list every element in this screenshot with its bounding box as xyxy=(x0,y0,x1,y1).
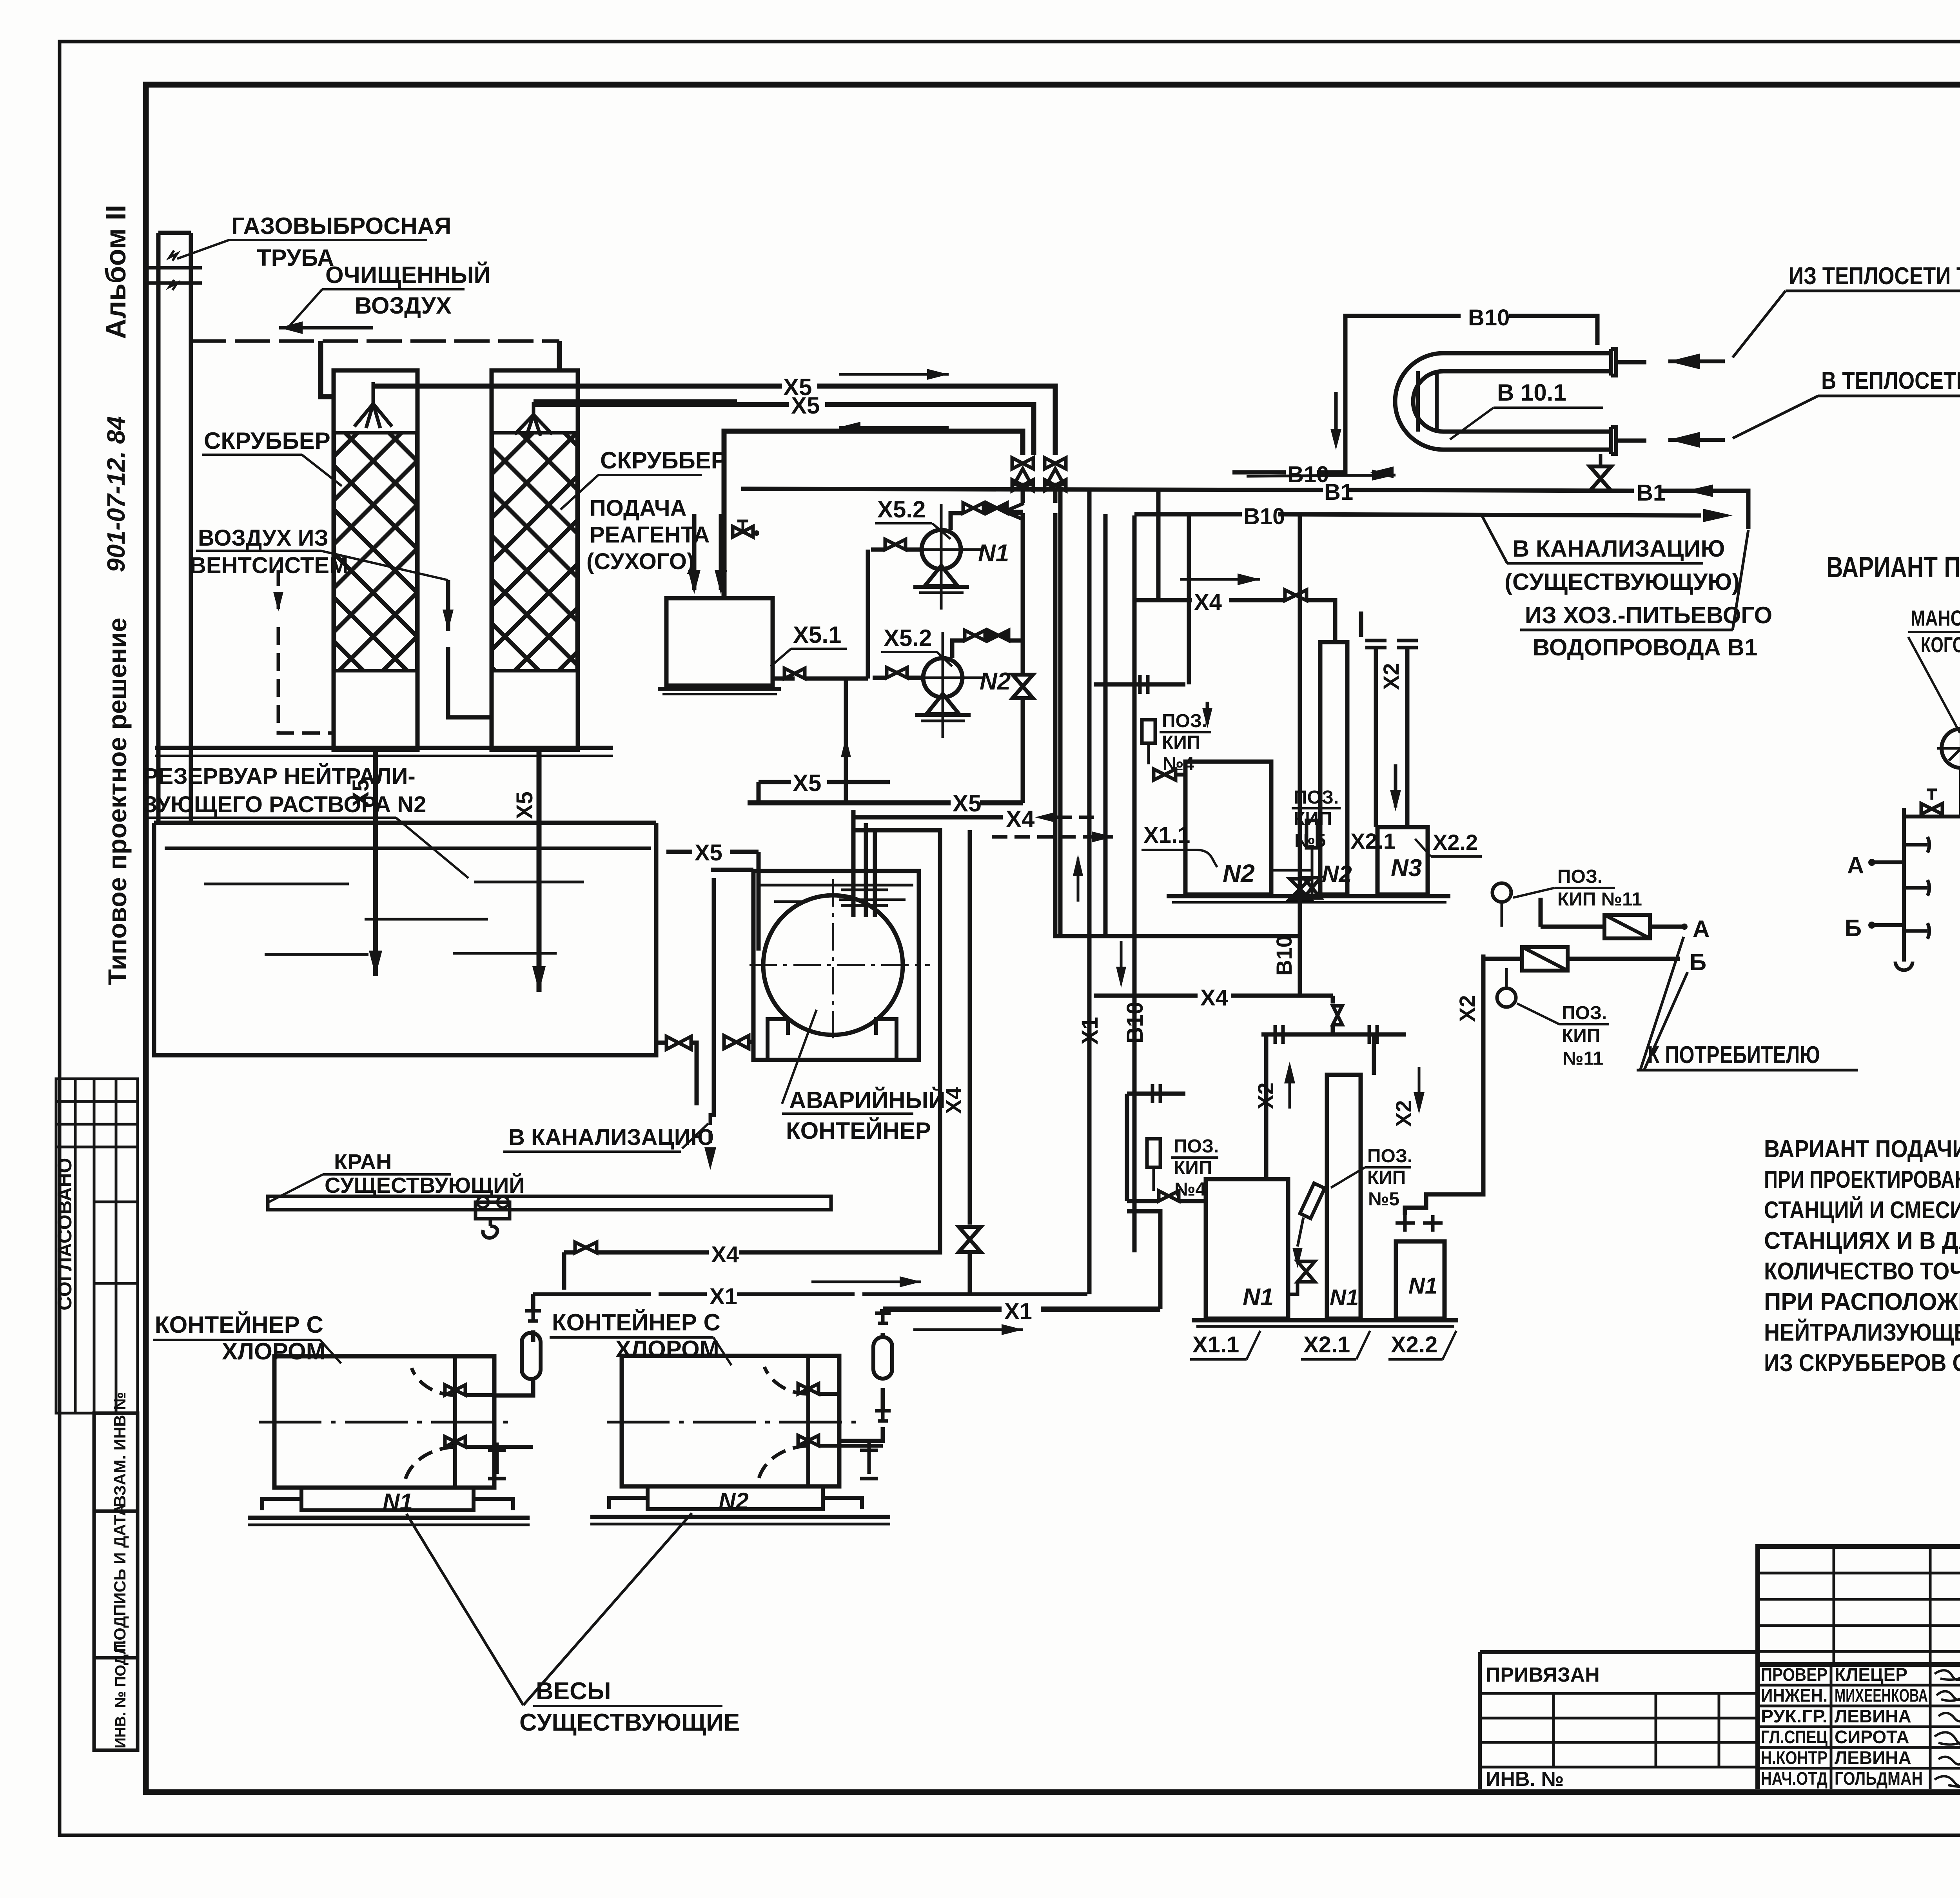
svg-text:К ПОТРЕБИТЕЛЮ: К ПОТРЕБИТЕЛЮ xyxy=(1648,1042,1820,1069)
valve under right bottom end xyxy=(1599,454,1602,466)
scale platform 1 xyxy=(301,1488,474,1510)
label xyxy=(786,1087,945,1144)
svg-text:ПОЗ.: ПОЗ. xyxy=(1557,866,1602,887)
svg-text:Х1: Х1 xyxy=(1077,1017,1103,1045)
top pipe from chimney to scrubber1 (dashed style) xyxy=(191,339,559,343)
stubs xyxy=(1616,360,1646,365)
tank N3 xyxy=(1377,827,1428,895)
X4 horizontal y=3195 xyxy=(564,1250,575,1255)
svg-text:ПРИ РАСПОЛОЖЕНИИ СКРУББЕРОВ В: ПРИ РАСПОЛОЖЕНИИ СКРУББЕРОВ В ЗДАНИИ РЕЗ… xyxy=(1764,1288,1960,1316)
svg-text:ПОЗ.: ПОЗ. xyxy=(1162,711,1207,731)
svg-text:Б: Б xyxy=(1845,915,1862,941)
v kanalizaciyu label xyxy=(508,1125,714,1150)
valve cluster 2x2 xyxy=(1012,458,1066,491)
svg-text:N2: N2 xyxy=(980,668,1011,695)
ground line under low tanks xyxy=(1192,1318,1458,1323)
svg-text:КИП: КИП xyxy=(1562,1025,1600,1046)
mixer A (upper) xyxy=(1541,925,1604,929)
names rows xyxy=(1758,1685,1960,1768)
end caps xyxy=(1611,349,1616,454)
svg-text:Х5.2: Х5.2 xyxy=(884,625,932,651)
arrow left on pipe xyxy=(279,326,373,330)
svg-text:ПРИ ПРОЕКТИРОВАНИИ ПРОИЗВОДСТВ: ПРИ ПРОЕКТИРОВАНИИ ПРОИЗВОДСТВЕННЫХ ЗДАН… xyxy=(1764,1166,1960,1193)
svg-text:ИНЖЕН.: ИНЖЕН. xyxy=(1761,1685,1828,1706)
N2 discharge xyxy=(952,641,965,658)
svg-text:ХЛОРОМ: ХЛОРОМ xyxy=(615,1336,719,1362)
tank X5.1 xyxy=(666,598,773,686)
KIP N11 lower circle xyxy=(1497,988,1516,1007)
signatures squiggles xyxy=(1935,1670,1960,1787)
emergency container box xyxy=(753,871,919,1060)
B10 vertical with X-valve xyxy=(1298,515,1302,996)
svg-text:Х5: Х5 xyxy=(791,392,820,419)
vertical bundle xyxy=(1058,490,1063,936)
N2 suction valve xyxy=(887,668,907,678)
svg-text:N1: N1 xyxy=(1408,1273,1437,1299)
svg-text:ВОЗДУХ ИЗ: ВОЗДУХ ИЗ xyxy=(198,525,328,551)
svg-text:КРАН: КРАН xyxy=(334,1149,392,1174)
X1 thin horizontal y=3302 xyxy=(533,1292,1089,1296)
svg-text:КИП №11: КИП №11 xyxy=(1557,889,1642,910)
upper instrument circuit KIP N4 xyxy=(1094,682,1185,687)
svg-text:N3: N3 xyxy=(1391,855,1422,882)
svg-text:НЕЙТРАЛИЗУЮЩЕГО РАСТВОРА N2 ОТ: НЕЙТРАЛИЗУЮЩЕГО РАСТВОРА N2 ОТСУТСТВУЕТ.… xyxy=(1764,1319,1960,1346)
svg-text:Типовое проектное решение: Типовое проектное решение xyxy=(103,618,132,985)
tank body xyxy=(154,823,656,1055)
svg-text:Х2: Х2 xyxy=(1391,1100,1416,1127)
scrubber 2 xyxy=(492,370,578,750)
svg-text:ГЛ.СПЕЦ: ГЛ.СПЕЦ xyxy=(1761,1727,1828,1747)
scrubber 1 xyxy=(334,370,417,750)
container 2 label xyxy=(552,1309,720,1362)
V kanalizaciyu block right of B10 arrow xyxy=(1504,535,1772,660)
svg-text:ИЗ СКРУББЕРОВ ОСУЩЕСТВЛЯЕТСЯ В: ИЗ СКРУББЕРОВ ОСУЩЕСТВЛЯЕТСЯ В РЕЗЕРВУАР… xyxy=(1764,1350,1960,1377)
svg-text:СОГЛАСОВАНО: СОГЛАСОВАНО xyxy=(54,1158,76,1310)
svg-text:В1: В1 xyxy=(1637,480,1666,506)
drop to X5 collect line xyxy=(844,679,848,803)
svg-text:ОЧИЩЕННЫЙ: ОЧИЩЕННЫЙ xyxy=(325,262,491,288)
svg-text:Х4: Х4 xyxy=(941,1087,966,1114)
manifold xyxy=(1902,808,1906,962)
svg-text:КИП: КИП xyxy=(1174,1158,1212,1178)
privyazan table xyxy=(1480,1652,1758,1789)
kran sushchestvuyushchiy (crane rail) xyxy=(325,1149,525,1198)
svg-text:ИНВ. №: ИНВ. № xyxy=(1486,1768,1564,1791)
thick X1 line y=3340 from container2 xyxy=(883,1306,1160,1312)
A and B stubs xyxy=(1868,859,1875,866)
svg-text:ГАЗОВЫБРОСНАЯ: ГАЗОВЫБРОСНАЯ xyxy=(231,213,451,239)
svg-text:N2: N2 xyxy=(1223,859,1255,887)
X4 line y=1531 xyxy=(1134,598,1285,602)
svg-text:А: А xyxy=(1693,916,1710,942)
svg-text:ВАРИАНТ ПОДАЧИ ХЛОРА В ТОЧКЕ В: ВАРИАНТ ПОДАЧИ ХЛОРА В ТОЧКЕ ВВОДА ПРЕДУ… xyxy=(1764,1136,1960,1163)
svg-text:N2: N2 xyxy=(719,1488,749,1514)
svg-text:А: А xyxy=(1847,852,1864,878)
svg-text:(СУХОГО): (СУХОГО) xyxy=(586,549,694,574)
svg-text:ПОЗ.: ПОЗ. xyxy=(1174,1136,1219,1157)
svg-text:Х5.1: Х5.1 xyxy=(793,622,841,648)
svg-text:КОНТЕЙНЕР С: КОНТЕЙНЕР С xyxy=(155,1312,323,1338)
svg-text:ИЗ ТЕПЛОСЕТИ ТО: ИЗ ТЕПЛОСЕТИ ТО xyxy=(1789,263,1960,290)
svg-text:Н.КОНТР: Н.КОНТР xyxy=(1761,1747,1828,1768)
dip tubes from top xyxy=(757,852,761,951)
svg-text:N1: N1 xyxy=(1330,1285,1359,1310)
KIP N5 lower slanted instrument xyxy=(1367,1146,1412,1210)
svg-text:СИРОТА: СИРОТА xyxy=(1835,1727,1909,1747)
ground line under mid tanks xyxy=(1167,894,1450,898)
soglasovano table xyxy=(56,1079,138,1413)
svg-text:Х1: Х1 xyxy=(1004,1299,1032,1324)
line 3 loop to tank X5.1 xyxy=(724,431,1023,598)
svg-text:N1: N1 xyxy=(383,1489,413,1515)
svg-text:ПОДАЧА: ПОДАЧА xyxy=(590,495,686,521)
KIP N11 upper circle xyxy=(1492,883,1511,902)
svg-text:В10: В10 xyxy=(1243,504,1285,529)
X4 line y=2540 xyxy=(1094,994,1333,998)
svg-text:№11: №11 xyxy=(1563,1048,1603,1069)
second elbow to X2 columns xyxy=(1359,611,1363,637)
manometr label xyxy=(1911,606,1960,657)
svg-text:СУЩЕСТВУЮЩИЙ: СУЩЕСТВУЮЩИЙ xyxy=(325,1173,525,1198)
svg-text:ПОЗ.: ПОЗ. xyxy=(1367,1146,1412,1167)
svg-text:КОНТЕЙНЕР С: КОНТЕЙНЕР С xyxy=(552,1309,720,1335)
container 1 label xyxy=(155,1312,326,1365)
small grid left xyxy=(1758,1546,1960,1664)
vesy label with V leader xyxy=(519,1678,740,1736)
U heat exchanger outer xyxy=(1395,353,1611,450)
svg-text:СУЩЕСТВУЮЩИЕ: СУЩЕСТВУЮЩИЕ xyxy=(519,1709,740,1736)
svg-text:СТАНЦИЙ И СМЕСИТЕЛЕЙ ВОДЫ С ХЛ: СТАНЦИЙ И СМЕСИТЕЛЕЙ ВОДЫ С ХЛОРОМ НА КА… xyxy=(1764,1196,1960,1224)
ochishchenny vozduh label xyxy=(325,262,491,319)
svg-text:Х4: Х4 xyxy=(1200,985,1228,1011)
svg-text:Х2: Х2 xyxy=(1455,995,1479,1022)
svg-text:ПОДПИСЬ И ДАТА: ПОДПИСЬ И ДАТА xyxy=(111,1504,129,1652)
spray nozzle 1 xyxy=(354,382,392,428)
svg-text:В10: В10 xyxy=(1122,1002,1148,1043)
chimney gazovybrosnaya truba xyxy=(156,233,161,823)
short ticks on dip tubes xyxy=(841,904,888,907)
svg-text:Х2.1: Х2.1 xyxy=(1303,1332,1350,1357)
svg-text:ИНВ. № ПОДЛ.: ИНВ. № ПОДЛ. xyxy=(113,1640,129,1748)
svg-text:ВЕНТСИСТЕМ: ВЕНТСИСТЕМ xyxy=(190,553,348,578)
container 1 xyxy=(274,1356,494,1488)
X5 line 1 (top, feeds scrubber1) xyxy=(373,386,1055,455)
svg-text:НАЧ.ОТД: НАЧ.ОТД xyxy=(1761,1768,1828,1789)
pump N1 xyxy=(922,530,961,569)
svg-text:КИП: КИП xyxy=(1162,732,1200,753)
svg-text:(СУЩЕСТВУЮЩУЮ): (СУЩЕСТВУЮЩУЮ) xyxy=(1504,569,1740,595)
svg-text:РУК.ГР.: РУК.ГР. xyxy=(1761,1706,1828,1726)
B1 long line y~1250 xyxy=(741,489,1748,529)
svg-text:РЕАГЕНТА: РЕАГЕНТА xyxy=(590,522,710,548)
X5 collect line xyxy=(759,780,890,784)
X2 line to mixers xyxy=(1483,957,1522,961)
svg-text:КОЛИЧЕСТВО ТОЧЕК ВВОДА ОПРЕДЕЛ: КОЛИЧЕСТВО ТОЧЕК ВВОДА ОПРЕДЕЛЯЕТСЯ ПРИ … xyxy=(1764,1258,1960,1285)
svg-text:N2: N2 xyxy=(1322,861,1352,887)
tank N1 big xyxy=(1206,1179,1288,1319)
svg-text:ПРОВЕР: ПРОВЕР xyxy=(1761,1664,1828,1685)
small up arrows on bundle xyxy=(1077,858,1080,902)
container2 feed pipe xyxy=(880,1309,886,1313)
svg-text:Х5.2: Х5.2 xyxy=(877,496,926,523)
svg-text:Х5: Х5 xyxy=(512,791,537,819)
svg-text:ВЕСЫ: ВЕСЫ xyxy=(536,1678,611,1705)
container 2 xyxy=(622,1356,839,1486)
svg-text:АВАРИЙНЫЙ: АВАРИЙНЫЙ xyxy=(789,1087,945,1113)
svg-text:ХЛОРОМ: ХЛОРОМ xyxy=(222,1338,326,1365)
svg-text:СТАНЦИЯХ И В ДАННОМ ПРОЕКТЕ НЕ: СТАНЦИЯХ И В ДАННОМ ПРОЕКТЕ НЕ РАЗРАБАТЫ… xyxy=(1764,1227,1960,1254)
crane trolley and hook xyxy=(475,1202,510,1219)
svg-text:В 10.1: В 10.1 xyxy=(1497,379,1566,406)
svg-text:Х2: Х2 xyxy=(1253,1083,1278,1110)
svg-text:РЕЗЕРВУАР НЕЙТРАЛИ-: РЕЗЕРВУАР НЕЙТРАЛИ- xyxy=(143,764,416,789)
svg-text:КОНТЕЙНЕР: КОНТЕЙНЕР xyxy=(786,1118,931,1144)
label gazovybrosnaya xyxy=(231,213,451,271)
X5 drop arrows to tank xyxy=(373,750,378,976)
B10 long line y~1312 xyxy=(1134,514,1701,515)
water line in box xyxy=(760,884,913,887)
water level xyxy=(165,847,651,850)
svg-text:ПОЗ.: ПОЗ. xyxy=(1562,1003,1607,1023)
vertical from valve cluster down with X-valve xyxy=(1021,513,1025,675)
svg-text:Х4: Х4 xyxy=(1006,806,1035,832)
tank N2 big xyxy=(1185,762,1271,895)
margin boxes column xyxy=(94,1413,138,1750)
svg-text:КИП: КИП xyxy=(1367,1167,1406,1188)
svg-text:Х4: Х4 xyxy=(711,1242,739,1267)
container1 feed pipe down xyxy=(531,1294,535,1311)
suction manifold vertical xyxy=(866,550,870,679)
mixer B (lower) xyxy=(1522,947,1568,971)
svg-text:В КАНАЛИЗАЦИЮ: В КАНАЛИЗАЦИЮ xyxy=(1512,535,1725,562)
svg-text:Х1.1: Х1.1 xyxy=(1143,822,1190,848)
svg-text:Х5: Х5 xyxy=(953,790,981,817)
svg-text:N1: N1 xyxy=(978,540,1009,567)
svg-text:ГОЛЬДМАН: ГОЛЬДМАН xyxy=(1835,1768,1923,1789)
KIP N4 lower xyxy=(1174,1136,1219,1200)
pump N2 xyxy=(923,658,962,697)
svg-text:Х4: Х4 xyxy=(1194,590,1222,615)
B10 upper link to U-loop xyxy=(1232,316,1597,472)
thin tank N2 xyxy=(1320,642,1347,895)
svg-text:В10: В10 xyxy=(1468,305,1510,330)
svg-text:Х2: Х2 xyxy=(1379,663,1403,690)
air inlet arrows between scrubbers xyxy=(446,580,450,631)
svg-text:ВОДОПРОВОДА В1: ВОДОПРОВОДА В1 xyxy=(1533,634,1757,660)
cradle xyxy=(768,1019,788,1060)
svg-text:В ТЕПЛОСЕТЬ ТО: В ТЕПЛОСЕТЬ ТО xyxy=(1821,367,1960,394)
svg-text:В10: В10 xyxy=(1272,935,1296,976)
big arrows from teploset xyxy=(1668,359,1725,363)
inflow arrows xyxy=(692,514,697,590)
open arrow left of cluster xyxy=(1003,510,1023,514)
svg-text:Б: Б xyxy=(1690,949,1706,975)
tube ticks xyxy=(1416,371,1420,432)
KIP N5 instrument upper xyxy=(1294,787,1339,851)
svg-text:Х2.1: Х2.1 xyxy=(1350,829,1396,853)
columns down to N1 tanks xyxy=(1264,1034,1269,1179)
svg-text:СКРУББЕР: СКРУББЕР xyxy=(204,428,330,454)
svg-text:ЗУЮЩЕГО РАСТВОРА N2: ЗУЮЩЕГО РАСТВОРА N2 xyxy=(143,792,426,817)
svg-text:901-07-12. 84: 901-07-12. 84 xyxy=(102,416,130,572)
reservoir N2 label xyxy=(143,764,426,817)
X5 line 2 (feeds scrubber2) xyxy=(534,405,1034,455)
svg-text:В10: В10 xyxy=(1287,462,1329,487)
gauge circle xyxy=(1942,729,1960,768)
svg-text:Х1.1: Х1.1 xyxy=(1192,1332,1239,1357)
svg-text:СКРУББЕР: СКРУББЕР xyxy=(600,447,727,474)
labels below xyxy=(1192,1332,1437,1357)
svg-text:Х5: Х5 xyxy=(695,840,722,866)
scale platform 2 xyxy=(648,1486,823,1509)
main stamp outline xyxy=(1758,1546,1960,1664)
valve on vertical into tank xyxy=(733,526,753,537)
manifold to rotameter bottom pipe xyxy=(1904,815,1960,818)
svg-text:ТРУБА: ТРУБА xyxy=(257,245,334,271)
X4 vertical from container circle area down through valve to X1 xyxy=(968,830,972,1225)
svg-text:№5: №5 xyxy=(1368,1189,1399,1210)
X4 stub line with arrow xyxy=(852,815,1003,820)
svg-text:Х1: Х1 xyxy=(710,1284,737,1309)
svg-text:ЛЕВИНА: ЛЕВИНА xyxy=(1835,1747,1911,1768)
vozduh iz ventsistem xyxy=(190,525,348,578)
hash line xyxy=(1261,1032,1406,1037)
centerlines xyxy=(750,964,930,966)
container circle xyxy=(763,895,903,1035)
scrubber labels xyxy=(204,428,727,574)
svg-text:ВЗАМ. ИНВ №: ВЗАМ. ИНВ № xyxy=(111,1392,129,1507)
tank outlet to manifold xyxy=(773,677,795,681)
svg-text:МАНОМЕТР НИЗ-: МАНОМЕТР НИЗ- xyxy=(1911,606,1960,630)
svg-text:МИХЕЕНКОВА: МИХЕЕНКОВА xyxy=(1835,1685,1928,1706)
thin tank N1 xyxy=(1327,1075,1361,1319)
svg-text:Альбом II: Альбом II xyxy=(100,205,132,339)
N1 discharge up and valves xyxy=(951,513,963,530)
N1 suction valve xyxy=(885,539,906,550)
floor line under scrubbers xyxy=(155,746,613,750)
svg-text:N1: N1 xyxy=(1243,1284,1274,1311)
svg-text:ПРИВЯЗАН: ПРИВЯЗАН xyxy=(1486,1664,1600,1686)
bottom right drain valves xyxy=(666,1036,691,1049)
svg-text:Х5: Х5 xyxy=(793,770,821,796)
svg-text:ЛЕВИНА: ЛЕВИНА xyxy=(1835,1706,1911,1726)
svg-text:Х2.2: Х2.2 xyxy=(1391,1332,1437,1357)
flow arrow on X4 line xyxy=(1180,578,1260,581)
small tank N1 right xyxy=(1396,1241,1445,1319)
svg-text:КЛЕЦЕР: КЛЕЦЕР xyxy=(1835,1664,1907,1685)
svg-text:ВАРИАНТ ПОДАЧИ ХЛОРА В ТОЧКЕ В: ВАРИАНТ ПОДАЧИ ХЛОРА В ТОЧКЕ ВВОДА xyxy=(1826,551,1960,583)
counterweight brackets xyxy=(488,1443,506,1479)
svg-text:КОГО ДАВЛЕНИЯ: КОГО ДАВЛЕНИЯ xyxy=(1921,632,1960,657)
feed line into scrubber1 top from right xyxy=(373,384,715,389)
svg-text:Х2.2: Х2.2 xyxy=(1433,830,1478,855)
svg-text:ВОЗДУХ: ВОЗДУХ xyxy=(355,292,452,319)
